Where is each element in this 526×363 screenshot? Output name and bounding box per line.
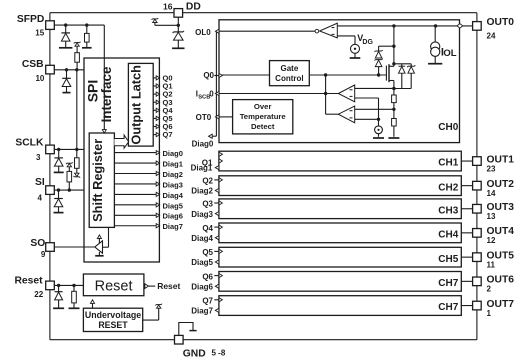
svg-text:DD: DD	[186, 2, 201, 13]
svg-text:9: 9	[41, 250, 46, 259]
svg-text:CH2: CH2	[438, 182, 458, 193]
svg-text:Diag0: Diag0	[163, 149, 183, 158]
svg-text:22: 22	[34, 290, 43, 299]
svg-text:Reset: Reset	[14, 275, 43, 286]
svg-text:SFPD: SFPD	[17, 14, 44, 25]
svg-text:Diag5: Diag5	[163, 201, 183, 210]
svg-text:3: 3	[36, 153, 41, 162]
svg-text:Diag7: Diag7	[191, 307, 213, 316]
svg-text:OUT0: OUT0	[487, 17, 515, 28]
svg-text:4: 4	[37, 194, 42, 203]
svg-text:OL0: OL0	[195, 28, 211, 37]
svg-text:Q5: Q5	[202, 248, 213, 257]
svg-text:GND: GND	[183, 348, 206, 358]
svg-text:Q6: Q6	[202, 272, 213, 281]
svg-text:Q3: Q3	[202, 200, 213, 209]
svg-text:Diag4: Diag4	[191, 234, 213, 243]
svg-text:2: 2	[487, 285, 492, 294]
svg-text:Control: Control	[275, 74, 303, 83]
svg-text:15: 15	[35, 29, 44, 38]
svg-text:Q7: Q7	[163, 130, 173, 139]
svg-text:Diag1: Diag1	[191, 164, 213, 173]
svg-text:CH7: CH7	[438, 302, 458, 313]
svg-text:Diag6: Diag6	[191, 282, 213, 291]
svg-text:16: 16	[163, 1, 173, 11]
svg-text:Q7: Q7	[202, 297, 213, 306]
svg-text:Q0: Q0	[203, 71, 214, 80]
svg-text:5 -8: 5 -8	[212, 349, 226, 358]
svg-text:SO: SO	[30, 238, 45, 249]
svg-text:Reset: Reset	[95, 278, 133, 294]
svg-text:DG: DG	[362, 39, 373, 46]
svg-text:Diag2: Diag2	[163, 170, 183, 179]
svg-text:Diag6: Diag6	[163, 212, 183, 221]
svg-text:Diag5: Diag5	[191, 258, 213, 267]
svg-text:SPI: SPI	[84, 80, 100, 103]
svg-text:24: 24	[487, 31, 496, 40]
svg-text:SCLK: SCLK	[15, 137, 44, 148]
svg-text:Diag3: Diag3	[191, 210, 213, 219]
svg-text:23: 23	[487, 164, 496, 173]
svg-text:CH1: CH1	[438, 158, 458, 169]
svg-text:Over: Over	[254, 102, 272, 111]
svg-text:11: 11	[487, 260, 496, 269]
svg-text:Diag7: Diag7	[163, 222, 183, 231]
svg-text:Q2: Q2	[202, 177, 213, 186]
svg-text:SI: SI	[35, 177, 45, 188]
svg-text:Undervoltage: Undervoltage	[85, 310, 141, 320]
svg-text:Diag1: Diag1	[163, 159, 183, 168]
svg-text:1: 1	[487, 309, 492, 318]
svg-text:Diag3: Diag3	[163, 180, 183, 189]
svg-text:Detect: Detect	[251, 122, 275, 131]
svg-text:CH7: CH7	[438, 278, 458, 289]
svg-text:14: 14	[487, 189, 496, 198]
svg-text:RESET: RESET	[98, 320, 128, 330]
svg-text:CH3: CH3	[438, 205, 458, 216]
svg-text:13: 13	[487, 212, 496, 221]
svg-text:Diag0: Diag0	[192, 140, 214, 149]
svg-text:12: 12	[487, 236, 496, 245]
svg-text:Gate: Gate	[281, 64, 299, 73]
svg-text:OT0: OT0	[196, 113, 212, 122]
svg-text:Diag2: Diag2	[191, 187, 213, 196]
svg-text:10: 10	[35, 74, 44, 83]
svg-text:Q4: Q4	[202, 224, 213, 233]
svg-text:CH5: CH5	[438, 254, 458, 265]
svg-text:Reset: Reset	[157, 281, 180, 291]
svg-text:Interface: Interface	[99, 67, 114, 123]
svg-text:0: 0	[209, 90, 214, 99]
svg-text:CH0: CH0	[438, 122, 458, 133]
svg-text:Temperature: Temperature	[240, 112, 287, 121]
svg-text:Output Latch: Output Latch	[129, 65, 144, 145]
svg-text:CH4: CH4	[438, 229, 458, 240]
svg-text:OL: OL	[443, 48, 456, 59]
svg-text:Shift Register: Shift Register	[90, 139, 105, 222]
svg-text:CSB: CSB	[22, 59, 44, 70]
svg-text:Diag4: Diag4	[163, 191, 184, 200]
